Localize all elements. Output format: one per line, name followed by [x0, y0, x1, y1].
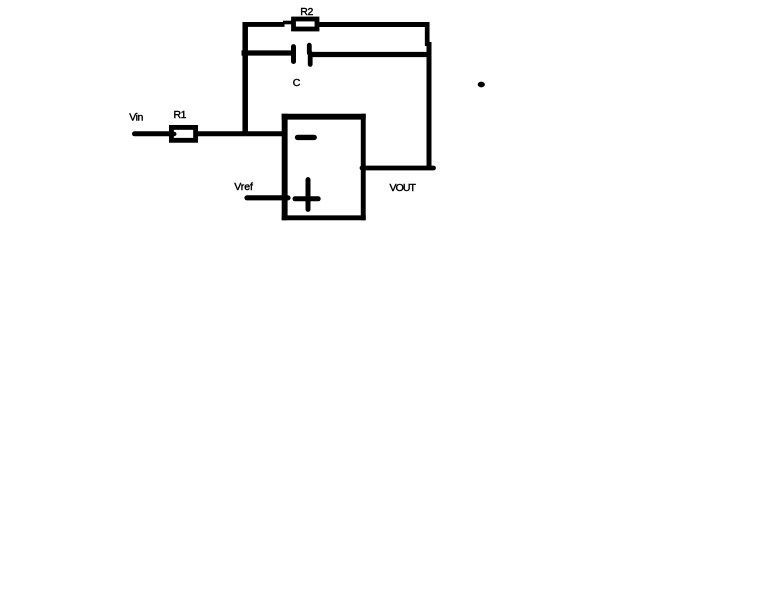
svg-text:VOUT: VOUT	[390, 182, 417, 194]
svg-text:R2: R2	[300, 6, 313, 18]
svg-text:Vin: Vin	[129, 112, 143, 124]
svg-text:Vref: Vref	[234, 181, 253, 193]
svg-text:C: C	[293, 77, 301, 89]
svg-text:R1: R1	[174, 109, 187, 121]
